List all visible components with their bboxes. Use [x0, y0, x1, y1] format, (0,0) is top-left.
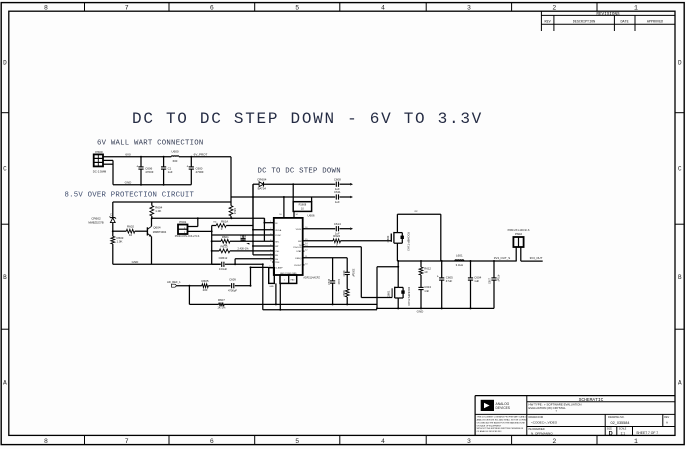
- svg-text:3: 3: [467, 438, 471, 445]
- protection ground rail: [113, 263, 221, 265]
- svg-text:OR USED AS THE BASIS FOR THE M: OR USED AS THE BASIS FOR THE MANUFACTURE: [477, 421, 526, 424]
- svg-text:8.5V OVER PROTECTION CIRCUIT: 8.5V OVER PROTECTION CIRCUIT: [65, 192, 195, 200]
- svg-text:+: +: [187, 164, 189, 168]
- svg-text:FDC648P-T1-K3: FDC648P-T1-K3: [406, 232, 409, 251]
- svg-text:SHEET 7 OF 7: SHEET 7 OF 7: [636, 431, 658, 435]
- svg-text:4700F: 4700F: [196, 170, 204, 174]
- input ground rail: [113, 184, 191, 186]
- frame row zone letters: [3, 60, 682, 387]
- power arrow after C614: [350, 227, 353, 230]
- svg-text:2.43K-1%: 2.43K-1%: [238, 247, 250, 250]
- svg-text:D: D: [678, 60, 682, 67]
- svg-text:<CODEC>_VIDEO: <CODEC>_VIDEO: [531, 421, 558, 425]
- wire P601 pin2 to left column: [188, 230, 212, 232]
- wire U600 to 6V_PROT corner: [179, 156, 231, 158]
- wire 6V0 drop to protection circuit: [230, 157, 232, 197]
- svg-text:THIS DOCUMENT CONTAINS PROPRIE: THIS DOCUMENT CONTAINS PROPRIETARY DATA …: [477, 416, 529, 419]
- svg-text:AD_REF_1: AD_REF_1: [167, 280, 181, 284]
- IC part number: [303, 276, 320, 279]
- svg-text:4: 4: [270, 240, 271, 242]
- svg-text:DC TO DC STEP DOWN - 6V TO 3.3: DC TO DC STEP DOWN - 6V TO 3.3V: [132, 110, 483, 128]
- output ground rail: [377, 307, 494, 309]
- svg-text:R61A: R61A: [221, 219, 228, 223]
- svg-text:P600: P600: [95, 150, 103, 154]
- svg-text:DRAWING NO.: DRAWING NO.: [608, 416, 625, 419]
- resistor R601 on SEL row: [212, 235, 274, 247]
- resistor R622 gate row to Q600: [303, 234, 392, 247]
- svg-text:DESCRIPTION: DESCRIPTION: [573, 20, 595, 24]
- short row to IC pin 7: [253, 254, 274, 256]
- resistor R604: [150, 202, 163, 218]
- svg-text:3.3uH: 3.3uH: [456, 263, 463, 267]
- svg-text:FREQ: FREQ: [295, 258, 301, 260]
- svg-text:47uF: 47uF: [446, 279, 453, 283]
- wire C612 row up to SS pin row: [235, 259, 274, 265]
- svg-text:D: D: [609, 431, 613, 437]
- svg-text:2: 2: [552, 438, 556, 445]
- vertical joining rows near IC: [263, 218, 265, 241]
- revisions table: [541, 11, 675, 31]
- svg-text:C616: C616: [343, 270, 346, 277]
- capacitor C611: [334, 190, 350, 204]
- svg-text:A: A: [666, 421, 668, 425]
- svg-text:6V0: 6V0: [125, 153, 131, 157]
- svg-text:14: 14: [296, 214, 298, 216]
- title block size scale sheet fields: [607, 428, 658, 437]
- resistor R613 row: [212, 244, 274, 252]
- svg-text:1: 1: [270, 221, 271, 223]
- IC right pin rows: [293, 227, 307, 267]
- svg-text:GND: GND: [417, 310, 425, 314]
- svg-text:R1608: R1608: [299, 203, 307, 207]
- svg-text:GND: GND: [269, 286, 274, 288]
- title block drawing number field: [608, 416, 630, 425]
- IC left pin rows: [269, 221, 283, 269]
- svg-text:2: 2: [552, 4, 556, 11]
- SW output rail: [397, 260, 516, 262]
- net label 6V_PROT: [194, 153, 208, 157]
- svg-text:PGOOD: PGOOD: [293, 247, 302, 249]
- svg-text:WITHOUT THE EXPRESS WRITTEN PE: WITHOUT THE EXPRESS WRITTEN PERMISSION: [477, 428, 524, 430]
- svg-text:TRK: TRK: [275, 262, 280, 264]
- net label GND protection: [132, 260, 140, 264]
- capacitor C607 output: [489, 261, 500, 308]
- capacitor C601: [161, 157, 173, 185]
- capacitor C609: [228, 278, 251, 293]
- svg-text:ADP2114ACPZ: ADP2114ACPZ: [303, 276, 320, 279]
- wire PGOOD row to Q601 gate: [303, 247, 393, 298]
- power arrow after C608: [350, 183, 353, 186]
- frame row tick marks: [1, 113, 684, 330]
- wire CLAMP row: [251, 267, 269, 285]
- svg-text:Q601: Q601: [387, 290, 391, 297]
- svg-text:3300pF: 3300pF: [351, 269, 354, 278]
- resistor R61A nc: [212, 219, 253, 230]
- svg-text:PWR-CON-JCK-2.5-S: PWR-CON-JCK-2.5-S: [175, 235, 200, 238]
- op-amp U606 DC-DC controller IC body: [274, 214, 315, 275]
- svg-text:CSOUT: CSOUT: [294, 265, 302, 267]
- svg-text:R601: R601: [222, 235, 229, 239]
- svg-text:REVISIONS: REVISIONS: [596, 12, 620, 17]
- svg-text:N. OFFMANNO: N. OFFMANNO: [531, 432, 553, 436]
- inductor L601: [455, 253, 464, 266]
- svg-text:REV: REV: [664, 416, 669, 419]
- section title 8.5V over protection circuit: [65, 192, 195, 200]
- ground rail below IC: [263, 309, 377, 311]
- capacitor C612 on ground row: [212, 256, 263, 271]
- transistor Q601 NMOS: [387, 287, 410, 306]
- svg-text:R613: R613: [221, 244, 228, 248]
- svg-text:1uF: 1uF: [474, 279, 479, 283]
- wire right loop down to output rail: [440, 214, 442, 261]
- wire SYNC row: [212, 234, 274, 236]
- sheet title text: [132, 110, 483, 128]
- capacitor C600: [187, 157, 204, 185]
- resistor R602: [126, 225, 135, 238]
- svg-text:MMBZ5237B: MMBZ5237B: [88, 220, 103, 224]
- svg-text:C: C: [110, 213, 112, 216]
- resistor R608: [343, 289, 349, 305]
- svg-text:200: 200: [203, 288, 208, 292]
- wires P602 pins to rail: [516, 247, 521, 261]
- svg-text:7: 7: [270, 253, 271, 255]
- svg-text:C607: C607: [489, 277, 492, 284]
- svg-text:02_035584: 02_035584: [611, 421, 630, 425]
- wire Q600 source to SW rail: [396, 243, 398, 261]
- svg-text:10nF: 10nF: [337, 279, 340, 285]
- svg-text:VDDA: VDDA: [275, 229, 282, 232]
- svg-text:C618: C618: [240, 234, 247, 238]
- svg-text:1.0K: 1.0K: [155, 209, 161, 213]
- svg-text:1: 1: [634, 438, 638, 445]
- svg-text:PWR-2X1-100-SI-S: PWR-2X1-100-SI-S: [508, 229, 530, 232]
- svg-text:BAT54: BAT54: [258, 187, 267, 191]
- wires IC pad to ground rails: [276, 283, 280, 309]
- svg-text:A: A: [678, 380, 682, 387]
- svg-text:8: 8: [270, 257, 271, 259]
- transistor Q600 PMOS: [386, 225, 409, 251]
- svg-text:9: 9: [270, 260, 271, 262]
- resistor R607 row: [189, 298, 377, 310]
- section title DC to DC step down: [258, 168, 341, 176]
- svg-text:16: 16: [279, 214, 281, 216]
- svg-text:4: 4: [381, 4, 385, 11]
- svg-text:PE DRAWNED: PE DRAWNED: [529, 428, 545, 431]
- capacitor C606: [136, 157, 154, 185]
- svg-text:REV: REV: [545, 20, 552, 24]
- svg-text:CR604: CR604: [257, 177, 267, 181]
- svg-text:12: 12: [305, 250, 307, 252]
- frame column tick marks: [85, 3, 598, 445]
- net flag AD_REF_1: [167, 280, 181, 287]
- svg-text:P602: P602: [515, 232, 522, 236]
- svg-text:U600: U600: [171, 150, 179, 154]
- 6V_PROT wire to Q600 drain: [397, 210, 440, 214]
- connector P601 power jack: [175, 220, 200, 238]
- capacitor C604 output: [468, 261, 482, 308]
- capacitor C616 branch: [343, 258, 355, 289]
- svg-text:3: 3: [467, 4, 471, 11]
- svg-text:APPROVED: APPROVED: [647, 20, 663, 24]
- left column vertical wire: [211, 226, 213, 265]
- wire ground rail left riser: [262, 264, 264, 310]
- svg-text:R602: R602: [127, 225, 134, 229]
- svg-text:D: D: [3, 60, 7, 67]
- svg-text:5: 5: [295, 4, 299, 11]
- vertical from CR604 row down to rows: [252, 184, 254, 255]
- svg-text:3V3_OUT: 3V3_OUT: [530, 256, 543, 260]
- title block drawn for field: [529, 416, 558, 425]
- svg-text:10: 10: [305, 263, 307, 265]
- svg-text:SCHEMATIC: SCHEMATIC: [579, 397, 604, 403]
- svg-text:4700F: 4700F: [145, 170, 153, 174]
- svg-text:EVALUATION (W) CRYSTAL: EVALUATION (W) CRYSTAL: [529, 406, 567, 410]
- wire Q601 drain to SW rail: [397, 261, 399, 287]
- svg-text:600: 600: [173, 159, 178, 163]
- connector P600 DC jack: [93, 150, 107, 173]
- IC ground pin box: [269, 268, 275, 288]
- protection left vertical wire: [112, 202, 114, 218]
- svg-text:OR SALE OF EQUIPMENT: OR SALE OF EQUIPMENT: [477, 424, 502, 427]
- wire CR604 row left vertical to VDDA: [253, 184, 274, 230]
- svg-text:6: 6: [210, 438, 214, 445]
- 6V0 feed row to C611: [231, 196, 335, 198]
- svg-text:DC-2.5MM: DC-2.5MM: [93, 169, 107, 173]
- svg-text:L601: L601: [456, 253, 463, 257]
- connector P602 output header: [508, 229, 530, 247]
- capacitor C615 branch: [328, 258, 340, 305]
- svg-text:CR612: CR612: [219, 256, 228, 260]
- svg-text:7: 7: [125, 438, 129, 445]
- collector rail to IC: [152, 218, 274, 223]
- svg-text:R607: R607: [218, 298, 225, 302]
- svg-text:Q604: Q604: [153, 225, 161, 229]
- svg-text:10: 10: [129, 233, 133, 237]
- svg-text:C: C: [678, 166, 682, 173]
- svg-text:CLAMP: CLAMP: [275, 267, 283, 270]
- resistor R614: [229, 197, 237, 218]
- svg-text:1uF: 1uF: [168, 170, 173, 174]
- svg-text:R605: R605: [202, 279, 209, 283]
- svg-text:A: A: [3, 380, 7, 387]
- net label 3V3_OUT: [530, 256, 543, 260]
- title block hw type text: [529, 403, 582, 414]
- svg-text:3V3_OUT_S: 3V3_OUT_S: [494, 256, 510, 260]
- snubber resistor R612: [419, 261, 431, 287]
- svg-text:R608: R608: [343, 290, 346, 297]
- resistor R603: [111, 236, 124, 264]
- svg-text:6V_PROT: 6V_PROT: [194, 153, 208, 157]
- wire AD_REF row: [177, 285, 202, 287]
- svg-text:VDDL: VDDL: [296, 229, 303, 231]
- svg-text:C609: C609: [229, 278, 236, 282]
- net label 6V0: [125, 153, 131, 157]
- svg-text:4: 4: [381, 438, 385, 445]
- svg-text:6V WALL WART CONNECTION: 6V WALL WART CONNECTION: [97, 140, 203, 148]
- svg-text:1uF: 1uF: [335, 200, 340, 204]
- power arrow after C611: [350, 196, 353, 199]
- diode CR604: [253, 177, 335, 190]
- svg-text:1nF: 1nF: [424, 289, 429, 293]
- svg-text:DRAWN FOR: DRAWN FOR: [529, 416, 544, 419]
- svg-text:8: 8: [44, 438, 48, 445]
- title block outline: [475, 396, 675, 436]
- capacitor C608: [334, 177, 350, 191]
- ferrite bead U600: [171, 150, 179, 163]
- svg-text:DATE: DATE: [621, 20, 629, 24]
- svg-text:GND: GND: [132, 260, 140, 264]
- svg-text:C611: C611: [334, 190, 341, 194]
- wire P601 pin1 to collector rail: [188, 218, 198, 226]
- svg-text:5: 5: [295, 438, 299, 445]
- ADI logo: [481, 400, 511, 410]
- title block rev field: [664, 416, 669, 425]
- title block schematic title: [579, 397, 604, 403]
- svg-text:5: 5: [270, 244, 271, 246]
- wire P600 pin1 to 6V0 rail: [103, 156, 171, 158]
- svg-text:FDC645N-T1-K3: FDC645N-T1-K3: [407, 287, 410, 306]
- resistor network box R1608: [293, 184, 311, 211]
- svg-text:U606: U606: [307, 214, 315, 218]
- capacitor C614: [303, 222, 351, 236]
- wire P600 pin2 pin3 to ground rail: [103, 160, 113, 184]
- snubber capacitor C613: [418, 285, 431, 308]
- 3V3_OUT wire segment: [521, 260, 543, 262]
- protection circuit top rail: [113, 201, 231, 203]
- svg-text:3: 3: [270, 233, 271, 235]
- svg-text:7: 7: [125, 4, 129, 11]
- IC bottom pad pins: [280, 272, 297, 284]
- svg-text:C608: C608: [334, 177, 341, 181]
- svg-text:CR602: CR602: [91, 217, 101, 221]
- svg-text:R614: R614: [233, 208, 237, 215]
- svg-text:MMBT3904: MMBT3904: [153, 230, 167, 234]
- capacitor C605 output: [437, 261, 453, 308]
- svg-text:1: 1: [634, 4, 638, 11]
- svg-text:6: 6: [270, 249, 271, 251]
- svg-text:ANALOG DEVICES INC. AND SHALL: ANALOG DEVICES INC. AND SHALL NOT BE COP…: [477, 419, 527, 422]
- svg-text:0.01uF: 0.01uF: [219, 267, 228, 271]
- section title 6V wall wart connection: [97, 140, 203, 148]
- svg-text:DEVICES: DEVICES: [496, 406, 511, 410]
- transistor Q604: [147, 218, 166, 264]
- short row to IC pin 5: [253, 245, 274, 247]
- svg-text:OF ANALOG DEVICES INC.: OF ANALOG DEVICES INC.: [477, 430, 503, 433]
- capacitor C618 between rows: [240, 234, 250, 244]
- svg-text:P601: P601: [179, 220, 186, 224]
- svg-text:Q600: Q600: [386, 235, 390, 242]
- svg-text:+: +: [136, 164, 138, 168]
- svg-text:470pF: 470pF: [497, 275, 500, 283]
- current sense wire: [377, 267, 398, 309]
- svg-text:PAD: PAD: [291, 279, 296, 282]
- svg-text:SCALE: SCALE: [619, 428, 627, 431]
- wire junction dots: [112, 156, 495, 311]
- resistor R605: [202, 279, 231, 292]
- title block pe drawn field: [529, 428, 554, 436]
- svg-text:6: 6: [210, 4, 214, 11]
- svg-text:SYNC: SYNC: [275, 235, 281, 237]
- svg-text:+: +: [437, 274, 439, 278]
- svg-text:1K-1%: 1K-1%: [217, 306, 226, 310]
- svg-text:4700pF: 4700pF: [228, 289, 237, 293]
- svg-text:DC TO DC STEP DOWN: DC TO DC STEP DOWN: [258, 168, 341, 176]
- net label GND output: [417, 310, 425, 314]
- IC top pin verticals: [279, 197, 297, 218]
- wire Q600 drain up: [396, 214, 398, 225]
- svg-text:GND: GND: [125, 180, 133, 184]
- svg-text:1.0K: 1.0K: [117, 240, 123, 244]
- svg-text:8: 8: [44, 4, 48, 11]
- net label 3V3_OUT_S: [494, 256, 510, 260]
- svg-text:10: 10: [424, 270, 428, 274]
- svg-text:B: B: [678, 274, 682, 281]
- wire FREQ row: [303, 257, 348, 259]
- svg-text:R622: R622: [333, 234, 340, 238]
- wire Q601 source to ground rail: [397, 298, 399, 308]
- svg-text:C614: C614: [334, 222, 341, 226]
- wire R602 to Q604 base: [135, 230, 148, 232]
- svg-text:C615: C615: [328, 278, 331, 285]
- svg-text:C: C: [3, 166, 7, 173]
- zener diode CR602: [88, 213, 116, 236]
- wire AD_REF branch down: [188, 286, 190, 305]
- title block disclaimer text: [477, 416, 529, 434]
- net label GND input: [125, 180, 133, 184]
- svg-text:1:1: 1:1: [621, 431, 626, 435]
- wire zener to base: [113, 230, 127, 232]
- svg-text:STAT: STAT: [296, 250, 302, 253]
- svg-text:B: B: [3, 274, 7, 281]
